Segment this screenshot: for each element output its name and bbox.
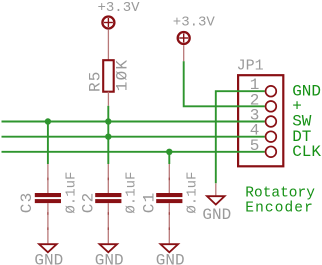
svg-text:GND: GND (34, 251, 63, 265)
pin wire C2 pin 2 (107, 203, 109, 243)
ground symbol GND (JP1 pin 1) (202, 183, 231, 224)
junction C2 / DT bus (105, 133, 111, 139)
wire net CLK (bus to pin 5) (2, 151, 265, 153)
svg-text:Ø.1uF: Ø.1uF (124, 172, 140, 214)
wire stub R5/C2 (107, 106, 109, 164)
svg-text:C2: C2 (79, 192, 97, 214)
label Rotatory Encoder (245, 186, 315, 217)
svg-text:1ØK: 1ØK (114, 59, 132, 91)
supply +3.3V (above R5) (98, 0, 141, 60)
svg-text:C3: C3 (18, 192, 36, 214)
svg-text:R5: R5 (87, 70, 105, 92)
svg-text:Ø.1uF: Ø.1uF (185, 172, 201, 214)
ground symbol GND (under C3) (34, 244, 63, 265)
pin 5 pad (266, 146, 277, 157)
svg-text:GND: GND (95, 251, 124, 265)
svg-text:C1: C1 (140, 192, 158, 214)
supply +3.3V (to JP1 pin 2) (173, 14, 216, 61)
wire net GND (pin 1 down to ground) (216, 91, 265, 183)
pin 4 pad (266, 131, 277, 142)
svg-text:GND: GND (156, 251, 185, 265)
wire net SW (bus to pin 3) (2, 121, 265, 123)
pin wire C3 pin 1 (47, 164, 49, 193)
pin wire C2 pin 1 (107, 164, 109, 193)
capacitor C2 0.1uF (79, 164, 139, 243)
pin wire GND symbol (215, 183, 217, 196)
pin 1 pad (266, 86, 277, 97)
svg-text:GND: GND (202, 206, 231, 224)
wire stub C3 to SW bus (47, 122, 49, 165)
ground symbol GND (under C2) (95, 244, 124, 265)
capacitor C1 0.1uF (140, 164, 200, 243)
pin wire C1 pin 1 (168, 164, 170, 193)
wire net DT (bus to pin 4) (2, 136, 265, 138)
svg-text:CLK: CLK (292, 143, 321, 161)
svg-text:+3.3V: +3.3V (98, 0, 141, 16)
ground symbol GND (under C1) (156, 244, 185, 265)
junction C3 / SW bus (45, 118, 51, 124)
svg-text:5: 5 (250, 137, 260, 155)
wire net +3.3V (supply to pin 2) (184, 61, 265, 106)
svg-text:+3.3V: +3.3V (173, 14, 216, 30)
pin wire C1 pin 2 (168, 203, 170, 243)
junction R5 / SW bus (105, 118, 111, 124)
wire stub C1 to CLK bus (168, 152, 170, 164)
svg-text:Ø.1uF: Ø.1uF (63, 172, 79, 214)
pin wire C3 pin 2 (47, 203, 49, 243)
pin 3 pad (266, 116, 277, 127)
resistor R5 10K (87, 59, 132, 106)
svg-text:Encoder: Encoder (245, 201, 314, 217)
svg-text:Rotatory: Rotatory (245, 186, 315, 202)
pin wire R5 pin 2 (107, 92, 109, 106)
junction C1 / CLK bus (166, 149, 172, 155)
connector JP1 pins (250, 76, 277, 157)
pin 2 pad (266, 101, 277, 112)
svg-text:JP1: JP1 (237, 57, 264, 74)
capacitor C3 0.1uF (18, 164, 79, 243)
connector JP1 body (237, 57, 284, 166)
